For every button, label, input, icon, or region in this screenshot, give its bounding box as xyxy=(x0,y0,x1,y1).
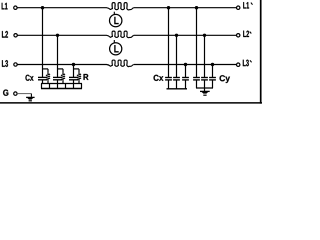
wire resistor 3 lower leg xyxy=(78,81,80,84)
star bus vertical 5 xyxy=(73,84,75,89)
capacitor Cx1 left plate bottom xyxy=(38,79,47,81)
label Cx left xyxy=(25,75,33,81)
choke circle symbol line2 xyxy=(110,43,122,55)
wire stub resistor 2 xyxy=(58,68,64,70)
capacitor right Cx3 plate bottom xyxy=(182,79,189,81)
resistor zigzag 1 xyxy=(46,73,50,81)
wire L1 right xyxy=(134,7,237,9)
choke circle symbol line1 xyxy=(110,14,122,26)
ground G bar1 xyxy=(26,96,34,98)
star bus bottom rail left xyxy=(41,88,82,90)
star bus vertical 1 xyxy=(41,84,43,89)
wire L2 left xyxy=(17,34,105,36)
label L2' xyxy=(243,31,249,37)
border right xyxy=(260,0,262,104)
junction node line3 left xyxy=(72,63,75,66)
ground Cy bar2 xyxy=(203,94,206,96)
wire Cx1 left lower leg xyxy=(42,80,44,84)
ground stem Cy xyxy=(204,88,206,91)
label L2 xyxy=(2,31,8,38)
junction node line2 Cy xyxy=(203,34,206,37)
wire drop Cy2 xyxy=(204,35,206,77)
prime mark L1' xyxy=(251,3,253,5)
junction node line2 right Cx xyxy=(175,34,178,37)
label Cy xyxy=(220,75,230,83)
star bus vertical 6 xyxy=(81,84,83,89)
wire resistor 3 upper leg xyxy=(78,69,80,73)
star bus top rail left xyxy=(41,83,82,85)
label L1' xyxy=(243,2,249,8)
capacitor right Cx1 plate bottom xyxy=(165,79,172,81)
wire drop Cx3 left xyxy=(73,65,75,78)
terminal L3 input xyxy=(14,63,17,66)
capacitor Cy3 plate bottom xyxy=(209,79,216,81)
wire resistor 2 lower leg xyxy=(62,81,64,84)
wire stub resistor 3 xyxy=(74,68,80,70)
terminal G ground xyxy=(14,92,17,95)
ground stem G xyxy=(30,94,32,97)
junction node line3 right Cx xyxy=(184,63,187,66)
terminal L2' output xyxy=(237,34,240,37)
bus Cy common xyxy=(196,87,213,89)
prime mark L2' xyxy=(250,32,252,34)
capacitor Cy1 plate top xyxy=(193,77,200,79)
wire Cy1 lower leg xyxy=(196,80,198,88)
wire L3 right xyxy=(134,64,237,66)
inductor winding line3 xyxy=(105,60,134,67)
wire L3 left xyxy=(17,64,105,66)
wire drop Cx1 left xyxy=(42,8,44,78)
ground G trapezoid xyxy=(27,98,33,100)
label L1 xyxy=(2,3,8,10)
capacitor Cx1 left plate top xyxy=(38,76,47,78)
capacitor right Cx3 plate top xyxy=(182,77,189,79)
inductor winding line2 xyxy=(105,31,134,38)
capacitor Cx3 left plate top xyxy=(69,76,78,78)
wire drop Cy1 xyxy=(196,8,198,78)
wire Cy2 lower leg xyxy=(204,80,206,88)
capacitor Cy1 plate bottom xyxy=(193,79,200,81)
wire drop right Cx3 xyxy=(185,65,187,78)
wire L2 right xyxy=(134,34,237,36)
wire G xyxy=(17,93,31,95)
ground G bar2 xyxy=(29,100,32,102)
wire drop Cx2 left xyxy=(57,35,59,77)
wire right Cx1 lower leg xyxy=(168,80,170,89)
wire Cx3 left lower leg xyxy=(73,80,75,84)
label R xyxy=(84,74,89,80)
wire L1 left xyxy=(17,7,105,9)
letter L in circle line1 xyxy=(115,17,119,24)
star bus vertical 3 xyxy=(57,84,59,89)
capacitor Cx2 left plate top xyxy=(53,76,62,78)
capacitor Cx3 left plate bottom xyxy=(69,79,78,81)
label L3' xyxy=(243,60,249,67)
ground Cy trapezoid xyxy=(202,92,209,94)
wire stub resistor 1 xyxy=(43,68,49,70)
capacitor Cy2 plate bottom xyxy=(201,79,208,81)
junction node line3 Cy xyxy=(211,63,214,66)
capacitor right Cx1 plate top xyxy=(165,77,172,79)
choke circle stem line2 xyxy=(113,40,115,43)
wire drop right Cx2 xyxy=(176,35,178,77)
terminal L3' output xyxy=(237,63,240,66)
inductor winding line1 xyxy=(105,3,134,10)
terminal L1' output xyxy=(237,6,240,9)
capacitor Cy3 plate top xyxy=(209,77,216,79)
wire resistor 2 upper leg xyxy=(62,69,64,73)
capacitor right Cx2 plate top xyxy=(173,77,180,79)
junction node line2 left xyxy=(56,34,59,37)
border bottom xyxy=(0,102,262,104)
wire drop Cy3 xyxy=(212,65,214,78)
junction node line1 Cy xyxy=(195,6,198,9)
wire Cy3 lower leg xyxy=(212,80,214,88)
wire Cx2 left lower leg xyxy=(57,80,59,84)
label G xyxy=(3,90,8,96)
wire resistor 1 lower leg xyxy=(47,81,49,84)
resistor zigzag 2 xyxy=(61,73,65,81)
capacitor Cy2 plate top xyxy=(201,77,208,79)
label Cx right xyxy=(154,75,164,81)
prime mark L3' xyxy=(250,60,252,62)
choke circle stem line1 xyxy=(113,12,115,15)
letter L in circle line2 xyxy=(115,45,119,52)
resistor zigzag 3 xyxy=(77,73,81,81)
junction node line1 left xyxy=(41,6,44,9)
wire right Cx3 lower leg xyxy=(185,80,187,89)
star bus vertical 2 xyxy=(49,84,51,89)
terminal L1 input xyxy=(14,6,17,9)
capacitor Cx2 left plate bottom xyxy=(53,79,62,81)
terminal L2 input xyxy=(14,34,17,37)
star bus vertical 4 xyxy=(65,84,67,89)
junction node line1 right Cx xyxy=(167,6,170,9)
wire right Cx2 lower leg xyxy=(176,80,178,89)
wire resistor 1 upper leg xyxy=(47,69,49,73)
ground Cy bar1 xyxy=(200,90,210,92)
label L3 xyxy=(2,60,8,67)
capacitor right Cx2 plate bottom xyxy=(173,79,180,81)
bus right Cx star point xyxy=(167,88,188,90)
wire drop right Cx1 xyxy=(168,8,170,78)
